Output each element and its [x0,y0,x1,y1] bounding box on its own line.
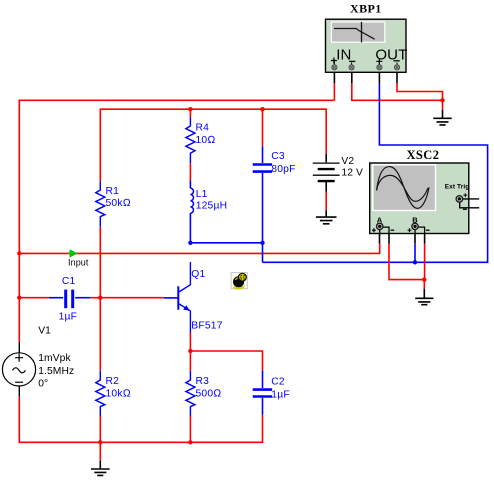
wire R3 bottom [189,416,191,442]
svg-text:Ext Trig: Ext Trig [445,184,470,191]
wire R4 to L1 [189,163,191,180]
ground G1 [433,110,451,125]
terminal XSC2 pins [377,196,463,230]
node C1 left junction [17,296,21,300]
source V1 [2,326,74,397]
svg-text:BF517: BF517 [191,321,222,332]
capacitor C3 [253,146,296,243]
wire R2 bottom [99,416,101,442]
svg-text:XBP1: XBP1 [350,1,382,15]
ground G2 below V2 [316,210,337,224]
wire scope B+ [414,234,416,263]
node R2 bottom junction [98,440,102,444]
node scope ground junction [422,277,426,281]
svg-text:R1: R1 [106,186,120,197]
ground G4 bottom [91,461,110,476]
node base bias junction [98,296,102,300]
transistor Q1 [164,262,223,333]
wire bottom rail [19,397,262,443]
svg-text:R3: R3 [196,376,210,387]
svg-text:10kΩ: 10kΩ [106,389,131,400]
wire R3 top lead [189,351,191,371]
capacitor C1 [49,276,90,323]
svg-text:R2: R2 [106,376,120,387]
node ground junction right of XBP1 [440,98,444,102]
svg-text:10Ω: 10Ω [196,135,216,146]
svg-text:500Ω: 500Ω [196,389,222,400]
input arrow [68,249,89,267]
svg-text:L1: L1 [196,189,208,200]
wire top rail input net [19,100,334,342]
wire stem to ground G3 [423,280,425,289]
svg-text:C3: C3 [271,151,285,162]
svg-text:Input: Input [68,257,89,267]
wire scope B- [424,234,426,280]
node scope B+ junction [413,260,417,264]
svg-text:0°: 0° [38,379,48,390]
svg-text:125µH: 125µH [196,200,228,211]
node emitter junction [188,349,192,353]
wire scope A+ stub [379,234,381,244]
wire R4 top [189,109,191,117]
wire XBP1 IN+ stub [333,70,335,101]
node collector junction [188,241,192,245]
wire emitter to C2 [190,351,262,370]
instrument XSC2 [370,148,480,234]
wire V2 to ground [325,192,327,210]
wire C1 line left [19,297,49,299]
icon probe [231,273,247,290]
svg-text:R4: R4 [196,123,210,134]
wire emitter down [189,333,191,351]
wire ground stem bottom [99,442,101,460]
wire collector link [190,242,262,244]
wire input line to scope A+ [19,244,379,253]
node C3 rail junction [260,107,264,111]
svg-text:V2: V2 [341,156,354,167]
wire scope A- [389,234,424,280]
svg-text:C2: C2 [271,376,285,387]
wire blue output net [263,70,488,262]
wire supply rail [100,109,326,181]
svg-text:V1: V1 [38,326,51,337]
resistor R2 [96,371,131,416]
wire stem to ground G1 [442,100,444,109]
node R4 rail junction [188,107,192,111]
wire XBP1 IN- to ground junction [352,70,443,101]
node C3 bottom junction [260,241,264,245]
ground G3 below XSC2 [415,289,433,305]
svg-text:1mVpk: 1mVpk [38,353,71,364]
resistor R3 [186,371,221,416]
capacitor C2 [253,370,290,415]
battery V2 [313,154,363,192]
resistor R4 [186,117,216,163]
svg-text:Q1: Q1 [191,269,205,280]
svg-text:50kΩ: 50kΩ [106,198,131,209]
wire XBP1 OUT- to ground junction [397,70,443,101]
resistor R1 [96,182,131,227]
inductor L1 [190,181,227,243]
svg-text:XSC2: XSC2 [407,148,440,162]
node R3 bottom junction [188,440,192,444]
wire bias column [99,227,101,371]
terminal XBP1 pins [332,65,400,70]
svg-text:1µF: 1µF [59,312,78,323]
instrument XBP1 [326,1,408,72]
wire C1 to base [90,297,164,299]
wire C3 top [262,109,264,146]
svg-text:80pF: 80pF [271,164,295,175]
svg-text:C1: C1 [62,276,76,287]
svg-text:12 V: 12 V [341,168,363,179]
svg-text:1µF: 1µF [271,389,290,400]
node input junction [17,251,21,255]
svg-text:1.5MHz: 1.5MHz [38,366,74,377]
